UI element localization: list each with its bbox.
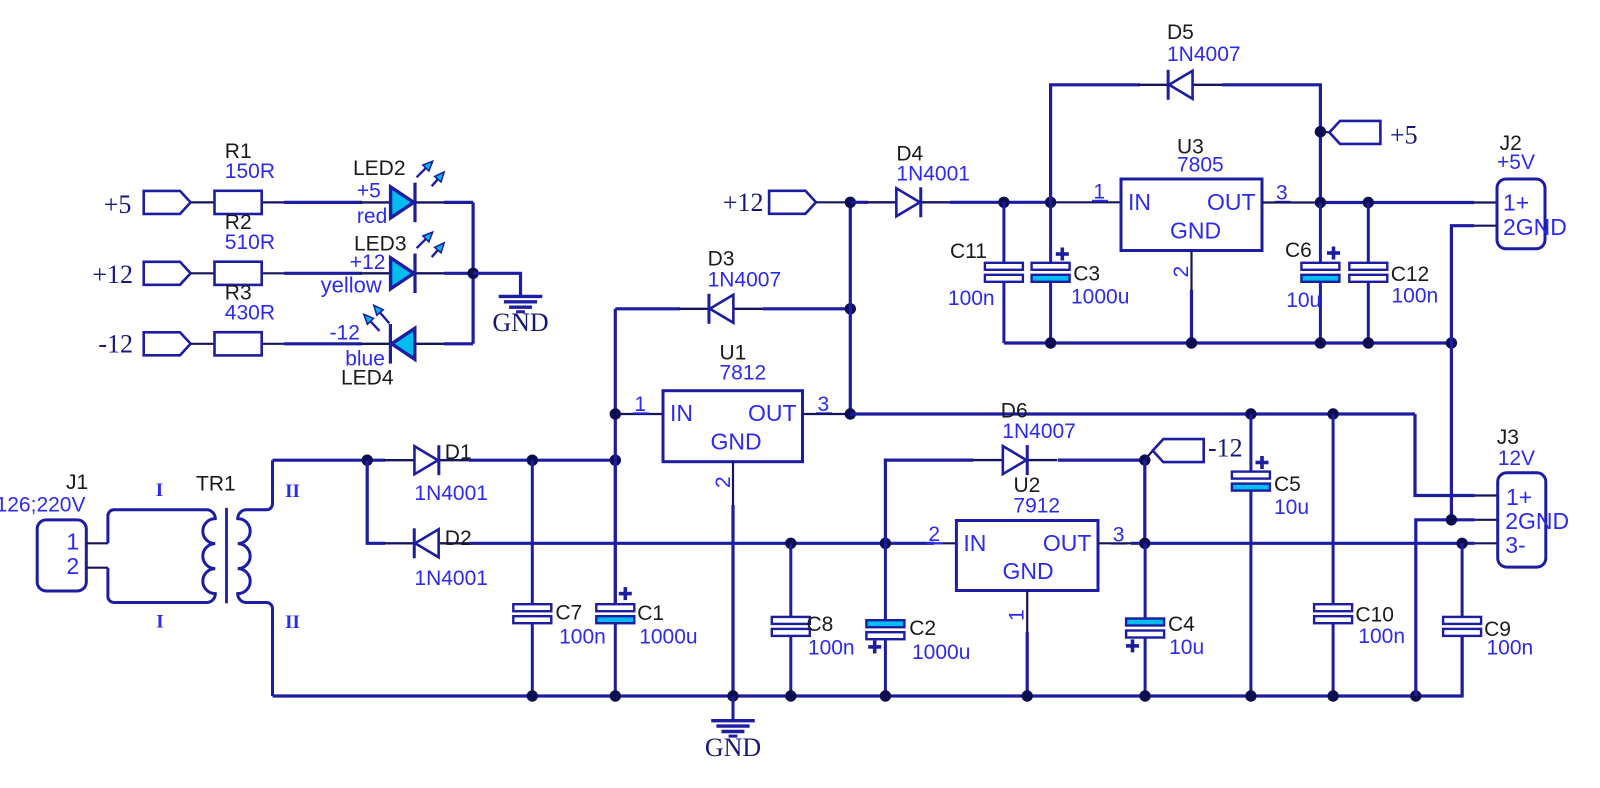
svg-text:-12: -12 — [98, 330, 133, 359]
diode D3 — [679, 308, 710, 310]
node C10 bottom — [1327, 690, 1338, 701]
svg-text:+12: +12 — [92, 260, 133, 289]
wire D5 to +5 branch — [1222, 85, 1320, 203]
LED4 arrows — [379, 312, 389, 324]
wire +5 ground rail — [1004, 341, 1452, 344]
svg-text:7812: 7812 — [720, 362, 767, 385]
node C12 bottom — [1363, 337, 1374, 348]
transformer TR1 core — [225, 508, 228, 603]
svg-text:1N4007: 1N4007 — [1167, 43, 1241, 66]
svg-text:100n: 100n — [1487, 636, 1534, 659]
svg-text:U2: U2 — [1014, 474, 1041, 497]
svg-text:100n: 100n — [1392, 285, 1439, 308]
capacitor C12 — [1367, 203, 1370, 263]
diode D5 — [1138, 84, 1169, 86]
svg-text:1000u: 1000u — [639, 625, 697, 648]
node +5 port junction — [1315, 126, 1326, 137]
op-amp U3 regulator 7805 box — [1121, 179, 1262, 251]
svg-text:7805: 7805 — [1177, 154, 1224, 177]
svg-text:100n: 100n — [559, 625, 606, 648]
wire +12 rail to J3 pin1 — [1415, 414, 1475, 496]
svg-text:GND: GND — [1170, 217, 1221, 243]
wire U3 GND to rail — [1190, 290, 1193, 343]
node C3 bottom — [1045, 337, 1056, 348]
svg-text:100n: 100n — [948, 287, 995, 310]
node C2 bottom — [880, 690, 891, 701]
wire +5 flag stub — [1320, 131, 1329, 134]
svg-text:12V: 12V — [1498, 447, 1535, 470]
svg-text:blue: blue — [345, 347, 385, 370]
capacitor C7 — [531, 460, 534, 604]
node U3 GND bottom — [1186, 337, 1197, 348]
port +12 input flag — [769, 191, 816, 214]
svg-text:+12: +12 — [723, 188, 764, 217]
wire rail down to J3 pin2 — [1450, 343, 1453, 520]
node C8 bottom — [785, 690, 796, 701]
transformer TR1 primary — [108, 510, 215, 603]
svg-text:II: II — [285, 481, 300, 502]
svg-text:1N4001: 1N4001 — [414, 482, 488, 505]
diode D1 — [383, 459, 414, 461]
LED LED3 — [360, 272, 391, 274]
node U1 OUT junction — [845, 408, 856, 419]
node U3 OUT junction — [1315, 197, 1326, 208]
wire R3 to LED4 — [284, 342, 362, 345]
svg-text:IN: IN — [1128, 189, 1151, 215]
wire U2 IN stub — [934, 542, 956, 544]
wire down to D2 row — [367, 460, 385, 543]
LED2 arrows — [417, 167, 427, 177]
wire +5 flag to R1 — [191, 201, 215, 203]
node C10 top — [1327, 408, 1338, 419]
wire U3 OUT to J2 — [1262, 201, 1320, 203]
LED LED2 — [360, 201, 391, 203]
node J3 GND rail — [1410, 690, 1421, 701]
svg-text:C11: C11 — [950, 240, 987, 263]
svg-text:IN: IN — [963, 530, 986, 556]
svg-text:C8: C8 — [807, 613, 834, 636]
svg-text:C1: C1 — [637, 602, 664, 625]
svg-text:10u: 10u — [1169, 636, 1204, 659]
wire +12 to D4 — [850, 201, 868, 204]
node D3 right — [845, 303, 856, 314]
node secondary-D1 — [362, 455, 373, 466]
connector J1 — [37, 520, 86, 591]
wire D5 branch — [1051, 85, 1140, 203]
svg-text:GND: GND — [710, 428, 761, 454]
node C1 bottom — [610, 690, 621, 701]
node C8 top — [785, 538, 796, 549]
wire J2 pin1 stub — [1474, 201, 1497, 203]
port +5 output flag — [1329, 121, 1380, 144]
svg-text:1N4007: 1N4007 — [708, 268, 782, 291]
node C9 top — [1456, 538, 1467, 549]
wire R2 to LED3 — [284, 272, 362, 275]
svg-text:OUT: OUT — [748, 400, 797, 426]
wire OUT row to J2 — [1320, 201, 1474, 204]
port -12 output flag — [1153, 439, 1204, 462]
wire J1 pin2 stub — [86, 567, 108, 569]
wire U1 GND to rail — [731, 505, 734, 696]
transformer TR1 secondary — [238, 460, 273, 696]
svg-text:C10: C10 — [1355, 604, 1394, 627]
wire U1 IN stub — [615, 413, 663, 415]
svg-text:D3: D3 — [708, 247, 735, 270]
node C6 bottom — [1315, 337, 1326, 348]
svg-text:GND: GND — [1002, 558, 1053, 584]
node J3 pin2 junction — [1446, 514, 1457, 525]
capacitor C1 — [614, 460, 617, 604]
wire U1 GND pin down — [732, 462, 734, 505]
wire +12 flag stub — [816, 201, 850, 203]
svg-text:GND: GND — [705, 733, 761, 762]
svg-text:TR1: TR1 — [196, 473, 236, 496]
node -12 junction — [1139, 454, 1150, 465]
capacitor C6 — [1319, 203, 1322, 263]
node D1-U1 junction — [610, 455, 621, 466]
wire D6 input branch — [885, 460, 973, 543]
node C3 top — [1045, 197, 1056, 208]
wire J3 pin1 stub — [1475, 494, 1498, 496]
svg-text:C4: C4 — [1168, 613, 1195, 636]
op-amp U1 regulator 7812 box — [663, 391, 803, 462]
port +12 flag — [144, 262, 191, 285]
node U2 GND rail — [1021, 690, 1032, 701]
resistor R2 — [262, 272, 284, 274]
svg-text:C2: C2 — [909, 617, 936, 640]
wire ground rail bottom — [273, 636, 1463, 696]
wire J2 pin2 to rail — [1474, 225, 1497, 227]
node C11 top — [998, 197, 1009, 208]
wire U2 OUT to J3 — [1131, 542, 1475, 545]
svg-text:430R: 430R — [225, 302, 275, 325]
svg-text:1: 1 — [1006, 609, 1029, 621]
node rail-J2 GND — [1446, 337, 1457, 348]
wire U3 IN stub — [1051, 201, 1121, 203]
node U2 OUT junction — [1139, 538, 1150, 549]
svg-text:J3: J3 — [1497, 426, 1519, 449]
resistor R3 — [262, 343, 284, 345]
svg-text:1: 1 — [66, 529, 79, 555]
diode D2 — [384, 542, 415, 544]
svg-text:red: red — [357, 205, 387, 228]
ground GND (main) — [711, 719, 755, 722]
svg-text:10u: 10u — [1274, 496, 1309, 519]
capacitor C8 — [789, 543, 792, 617]
wire R1 to LED2 — [284, 201, 362, 204]
node C2/D6 junction — [880, 538, 891, 549]
op-amp U2 regulator 7912 box — [956, 521, 1098, 591]
node U1 GND rail — [727, 690, 738, 701]
svg-text:LED2: LED2 — [353, 157, 406, 180]
svg-text:2: 2 — [712, 476, 735, 488]
wire D2 to U2 IN — [469, 542, 934, 545]
capacitor C2 — [884, 543, 887, 620]
wire J1 pin1 stub — [86, 542, 108, 544]
svg-text:510R: 510R — [225, 231, 275, 254]
wire LED cathode bus vertical — [472, 202, 475, 343]
capacitor C9 — [1461, 543, 1464, 617]
wire J3 pin2 to rail — [1475, 519, 1498, 521]
capacitor C3 — [1049, 202, 1052, 262]
svg-text:+5V: +5V — [1497, 151, 1535, 174]
svg-text:D1: D1 — [445, 441, 472, 464]
svg-text:-12: -12 — [1208, 434, 1243, 463]
wire -12 vertical — [1143, 460, 1146, 543]
svg-text:150R: 150R — [225, 160, 275, 183]
node C12 top — [1363, 197, 1374, 208]
wire U2 OUT to J3 pin3 — [1098, 542, 1131, 544]
svg-text:7912: 7912 — [1013, 495, 1060, 518]
wire U2 GND pin down — [1026, 591, 1028, 633]
port -12 flag — [144, 332, 191, 355]
svg-text:+12: +12 — [350, 251, 386, 274]
node LED bus junction — [467, 268, 478, 279]
wire U2 GND to rail — [1026, 632, 1029, 696]
diode D6 — [972, 459, 1003, 461]
svg-text:D2: D2 — [445, 527, 472, 550]
node C7 bottom — [527, 690, 538, 701]
svg-text:1+: 1+ — [1503, 190, 1529, 216]
svg-text:GND: GND — [492, 308, 548, 337]
node U1 IN junction — [610, 408, 621, 419]
svg-text:IN: IN — [670, 400, 693, 426]
capacitor C10 — [1332, 414, 1335, 604]
svg-text:I: I — [156, 480, 163, 501]
svg-text:D5: D5 — [1167, 21, 1194, 44]
svg-text:10u: 10u — [1286, 289, 1321, 312]
svg-text:100n: 100n — [808, 637, 855, 660]
svg-text:J1: J1 — [66, 471, 88, 494]
wire LED4 to bus — [444, 342, 473, 345]
capacitor C5 — [1249, 414, 1252, 472]
wire LED3 cathode to bus — [444, 272, 471, 275]
svg-text:II: II — [285, 612, 300, 633]
node C5 bottom — [1245, 690, 1256, 701]
capacitor C11 — [1002, 202, 1005, 262]
node +12 junction — [845, 197, 856, 208]
LED3 arrows — [417, 238, 427, 248]
svg-text:1N4001: 1N4001 — [414, 567, 488, 590]
svg-text:1000u: 1000u — [1071, 286, 1129, 309]
svg-text:+5: +5 — [1390, 121, 1418, 150]
connector J3 — [1498, 473, 1546, 567]
resistor R1 — [262, 201, 284, 203]
wire U1 OUT stub — [803, 413, 851, 415]
svg-text:C5: C5 — [1274, 473, 1301, 496]
svg-text:2: 2 — [66, 553, 79, 579]
wire -12 flag to R3 — [191, 343, 215, 345]
svg-text:1N4001: 1N4001 — [896, 162, 970, 185]
svg-text:OUT: OUT — [1043, 530, 1092, 556]
wire -12 flag stub — [1145, 451, 1153, 461]
svg-text:3-: 3- — [1505, 532, 1525, 558]
wire D4 to U3 IN — [950, 201, 1051, 204]
svg-text:2: 2 — [1170, 266, 1193, 278]
wire D3 row — [615, 307, 680, 310]
wire J3 pin3 stub — [1475, 542, 1498, 544]
wire U3 GND pin down — [1190, 251, 1192, 291]
node C4 bottom — [1139, 690, 1150, 701]
svg-text:C12: C12 — [1391, 263, 1430, 286]
wire input bus vertical x615 — [614, 309, 617, 604]
svg-text:C3: C3 — [1073, 263, 1100, 286]
svg-text:126;220V: 126;220V — [0, 493, 86, 516]
svg-text:C6: C6 — [1285, 239, 1312, 262]
wire +12 flag to R2 — [191, 272, 215, 274]
wire to GND symbol — [473, 273, 520, 295]
svg-text:2GND: 2GND — [1503, 214, 1567, 240]
wire J3 pin2 bend to rail — [1416, 520, 1475, 696]
svg-text:OUT: OUT — [1207, 189, 1256, 215]
svg-text:C7: C7 — [555, 601, 582, 624]
svg-text:1+: 1+ — [1506, 484, 1532, 510]
wire GND symbol stem — [732, 696, 735, 720]
wire +12 vertical x850 — [849, 202, 852, 414]
svg-text:+5: +5 — [104, 190, 132, 219]
svg-text:100n: 100n — [1358, 625, 1405, 648]
svg-text:-12: -12 — [330, 322, 360, 345]
wire D1 to C7 node — [469, 459, 615, 462]
svg-text:1N4007: 1N4007 — [1002, 420, 1076, 443]
port +5 flag — [144, 191, 191, 214]
ground GND (LED section) — [499, 295, 543, 298]
svg-text:2GND: 2GND — [1505, 508, 1569, 534]
svg-text:+5: +5 — [357, 180, 381, 203]
LED LED4 — [361, 343, 392, 345]
node C5 top — [1245, 408, 1256, 419]
svg-text:1000u: 1000u — [912, 641, 970, 664]
capacitor C4 — [1144, 543, 1147, 618]
svg-text:I: I — [156, 612, 163, 633]
wire LED2 cathode to bus — [444, 201, 473, 204]
connector J2 — [1497, 179, 1545, 249]
wire D3 to vertical — [763, 307, 850, 310]
wire secondary to D1 node — [273, 459, 386, 462]
diode D4 — [865, 201, 896, 203]
node C7 top — [527, 455, 538, 466]
wire U1 OUT +12 rail — [850, 412, 1415, 415]
svg-text:yellow: yellow — [321, 272, 382, 297]
wire D6 to -12 node — [1058, 459, 1145, 462]
